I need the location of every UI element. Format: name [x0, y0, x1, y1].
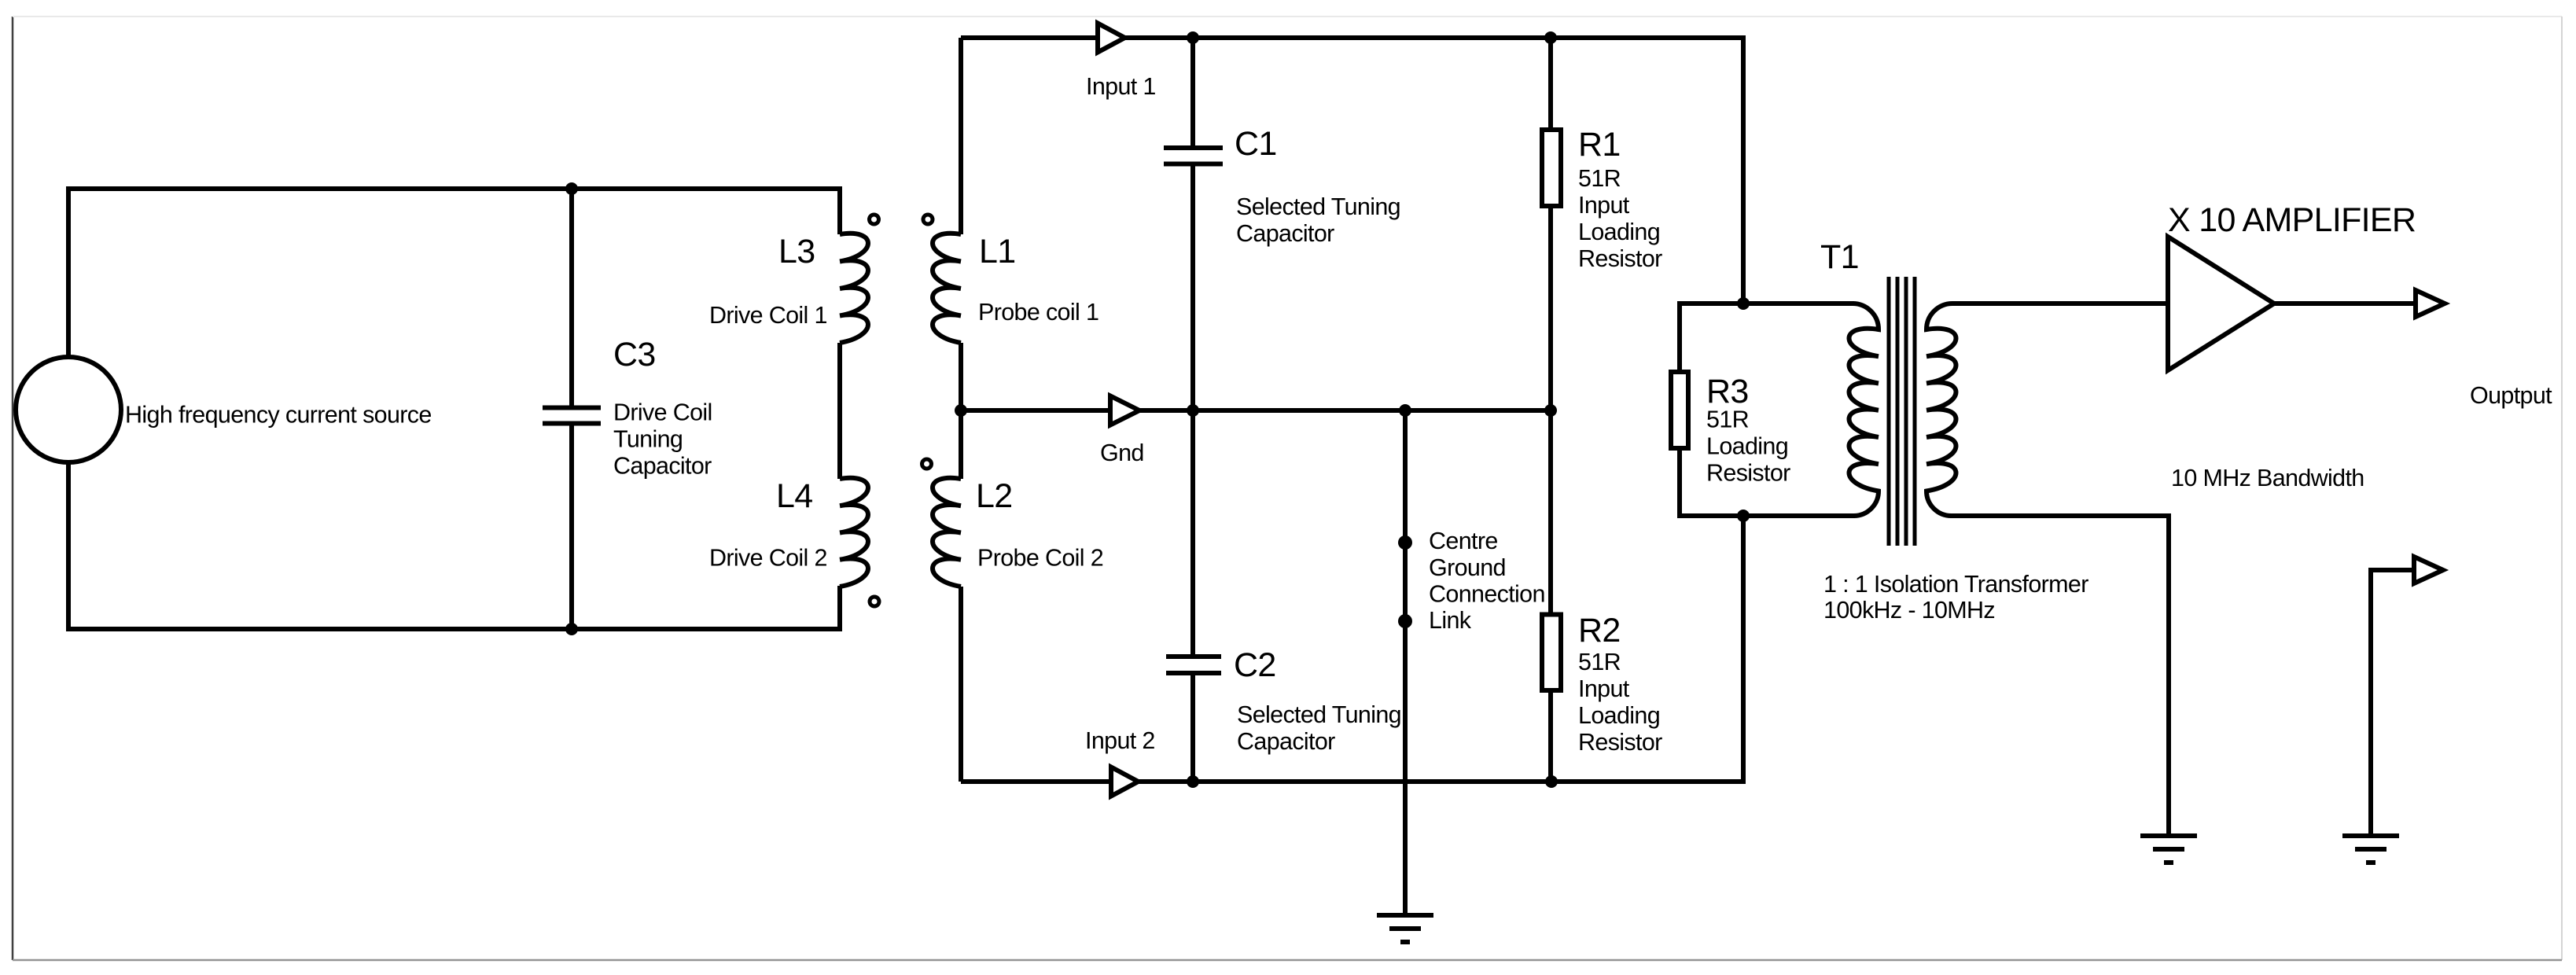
transformer T1 secondary winding — [1926, 304, 2169, 516]
wire: C1 top lead — [1190, 35, 1195, 146]
svg-text:Drive Coil 1: Drive Coil 1 — [709, 302, 827, 329]
wire: T1 primary bottom connection — [1677, 513, 1855, 518]
svg-text:X 10 AMPLIFIER: X 10 AMPLIFIER — [2168, 201, 2416, 239]
svg-text:Gnd: Gnd — [1100, 440, 1144, 466]
wire: C2 bottom lead — [1190, 675, 1195, 782]
wire: L1 lower lead to mid rail — [959, 343, 963, 410]
capacitor C2 — [1166, 657, 1221, 673]
svg-text:Loading: Loading — [1706, 433, 1788, 460]
svg-text:Ouptput: Ouptput — [2470, 382, 2552, 409]
resistor R2 — [1542, 615, 1561, 691]
svg-text:Tuning: Tuning — [613, 426, 683, 453]
junction dot C3 bottom — [565, 623, 578, 635]
op-amp X10 amplifier triangle — [2168, 237, 2274, 370]
wire: R3 top lead — [1677, 304, 1682, 372]
svg-text:L4: L4 — [776, 477, 812, 515]
svg-text:Link: Link — [1429, 607, 1472, 634]
svg-text:51R: 51R — [1578, 649, 1621, 675]
junction dot C3 top — [565, 182, 578, 195]
junction dot centre link top — [1399, 404, 1411, 417]
svg-text:C3: C3 — [613, 336, 656, 373]
svg-text:Selected Tuning: Selected Tuning — [1236, 193, 1400, 220]
wire: centre ground link vertical — [1403, 410, 1408, 915]
junction dot T1 primary top — [1737, 297, 1750, 310]
svg-text:Capacitor: Capacitor — [1236, 220, 1334, 247]
svg-text:Drive Coil: Drive Coil — [613, 399, 712, 426]
arrow Input 2 — [1111, 767, 1139, 797]
svg-text:Centre: Centre — [1429, 528, 1498, 554]
wire: T1 primary top connection — [1677, 301, 1854, 306]
wire: amplifier output — [2274, 301, 2416, 306]
ground amplifier side — [2140, 836, 2197, 863]
transformer T1 core — [1889, 277, 1915, 546]
capacitor C1 — [1164, 148, 1223, 164]
svg-text:High frequency current source: High frequency current source — [125, 402, 432, 429]
wire: R1 top lead — [1548, 38, 1553, 130]
svg-text:Capacitor: Capacitor — [1237, 728, 1335, 755]
arrow far right stub — [2414, 557, 2443, 583]
svg-text:Ground: Ground — [1429, 554, 1506, 581]
svg-text:10 MHz Bandwidth: 10 MHz Bandwidth — [2171, 465, 2364, 491]
svg-text:L3: L3 — [778, 233, 815, 270]
svg-text:R1: R1 — [1578, 126, 1621, 164]
svg-text:Loading: Loading — [1578, 702, 1660, 729]
svg-text:Input: Input — [1578, 192, 1630, 219]
svg-text:Probe Coil 2: Probe Coil 2 — [977, 545, 1103, 572]
phase dot L3 — [870, 215, 879, 224]
svg-text:Resistor: Resistor — [1706, 460, 1790, 487]
junction dot C1-C2 mid — [1187, 404, 1199, 417]
svg-text:L1: L1 — [979, 233, 1015, 270]
svg-text:R3: R3 — [1706, 373, 1749, 410]
wire: L4 bottom to drive loop bottom to source bottom — [68, 462, 840, 629]
svg-text:Selected Tuning: Selected Tuning — [1237, 701, 1401, 728]
svg-text:Input 1: Input 1 — [1086, 73, 1156, 100]
svg-text:C1: C1 — [1235, 125, 1277, 163]
svg-text:R2: R2 — [1578, 612, 1621, 649]
arrow Gnd — [1110, 396, 1139, 425]
svg-text:Input 2: Input 2 — [1085, 727, 1155, 754]
phase dot L1 — [923, 215, 933, 224]
arrow Input 1 — [1098, 24, 1125, 53]
resistor R1 — [1542, 130, 1561, 206]
junction dot R2 bottom — [1545, 775, 1558, 788]
wire: R2 top lead — [1548, 410, 1553, 614]
wire: R1 bottom lead — [1548, 208, 1553, 410]
capacitor C3 — [543, 408, 601, 424]
svg-text:Probe coil 1: Probe coil 1 — [978, 299, 1098, 326]
junction dot R1-R2 mid — [1544, 404, 1557, 417]
phase dot L2 — [922, 459, 932, 469]
junction dot R1 top — [1544, 31, 1557, 44]
wire: C3 top lead — [569, 189, 574, 407]
wire: probe riser top (L1 upper lead) — [959, 38, 963, 234]
svg-text:51R: 51R — [1706, 407, 1749, 433]
svg-text:Input: Input — [1578, 675, 1630, 702]
junction dot T1 primary bottom — [1737, 510, 1750, 522]
inductor L4 — [840, 478, 868, 587]
wire: C2 top lead — [1190, 410, 1195, 655]
arrow amplifier output — [2416, 290, 2445, 317]
svg-text:100kHz - 10MHz: 100kHz - 10MHz — [1823, 597, 1995, 624]
wire: L2 upper lead from mid rail — [959, 410, 963, 479]
transformer T1 primary winding — [1849, 304, 1879, 516]
svg-text:Connection: Connection — [1429, 581, 1545, 608]
wire: L3-L4 link — [837, 343, 842, 479]
resistor R3 — [1671, 372, 1688, 448]
wire: bottom rail Input 2 and rise to T1 — [961, 516, 1743, 782]
svg-text:L2: L2 — [976, 477, 1012, 515]
wire: R2 bottom lead — [1548, 693, 1553, 782]
wire: C1 bottom lead — [1190, 165, 1195, 410]
svg-text:T1: T1 — [1820, 238, 1859, 276]
ground far right — [2342, 836, 2399, 863]
svg-text:Loading: Loading — [1578, 219, 1660, 245]
inductor L1 — [933, 234, 961, 343]
wire: C3 bottom lead — [569, 425, 574, 629]
wire: mid rail Gnd — [961, 408, 1551, 413]
inductor L3 — [840, 234, 868, 343]
node centre link upper — [1398, 535, 1412, 550]
svg-text:Resistor: Resistor — [1578, 245, 1662, 272]
junction dot C1 top — [1187, 31, 1199, 44]
current source circle — [16, 357, 121, 462]
svg-text:Capacitor: Capacitor — [613, 453, 712, 480]
wire: L2 lower lead to bottom rail — [959, 587, 963, 782]
wire: source top to drive loop top to L3 — [68, 189, 840, 357]
ground centre link — [1377, 915, 1433, 942]
node centre link lower — [1398, 614, 1412, 628]
svg-text:Drive Coil 2: Drive Coil 2 — [709, 545, 827, 572]
phase dot L4 — [870, 597, 879, 606]
wire: T1 secondary bottom to ground drop — [1950, 516, 2169, 836]
junction dot L1-L2 mid — [955, 404, 967, 417]
svg-text:C2: C2 — [1234, 646, 1276, 684]
wire: R3 bottom lead — [1677, 451, 1682, 516]
wire: far right stub and ground drop — [2371, 570, 2415, 836]
svg-text:Resistor: Resistor — [1578, 729, 1662, 756]
wire: top rail Input 1 and drop to T1 — [961, 38, 1743, 304]
svg-text:1 : 1 Isolation Transformer: 1 : 1 Isolation Transformer — [1823, 571, 2088, 598]
junction dot C2 bottom — [1187, 775, 1199, 788]
svg-text:51R: 51R — [1578, 165, 1621, 192]
inductor L2 — [933, 478, 961, 587]
